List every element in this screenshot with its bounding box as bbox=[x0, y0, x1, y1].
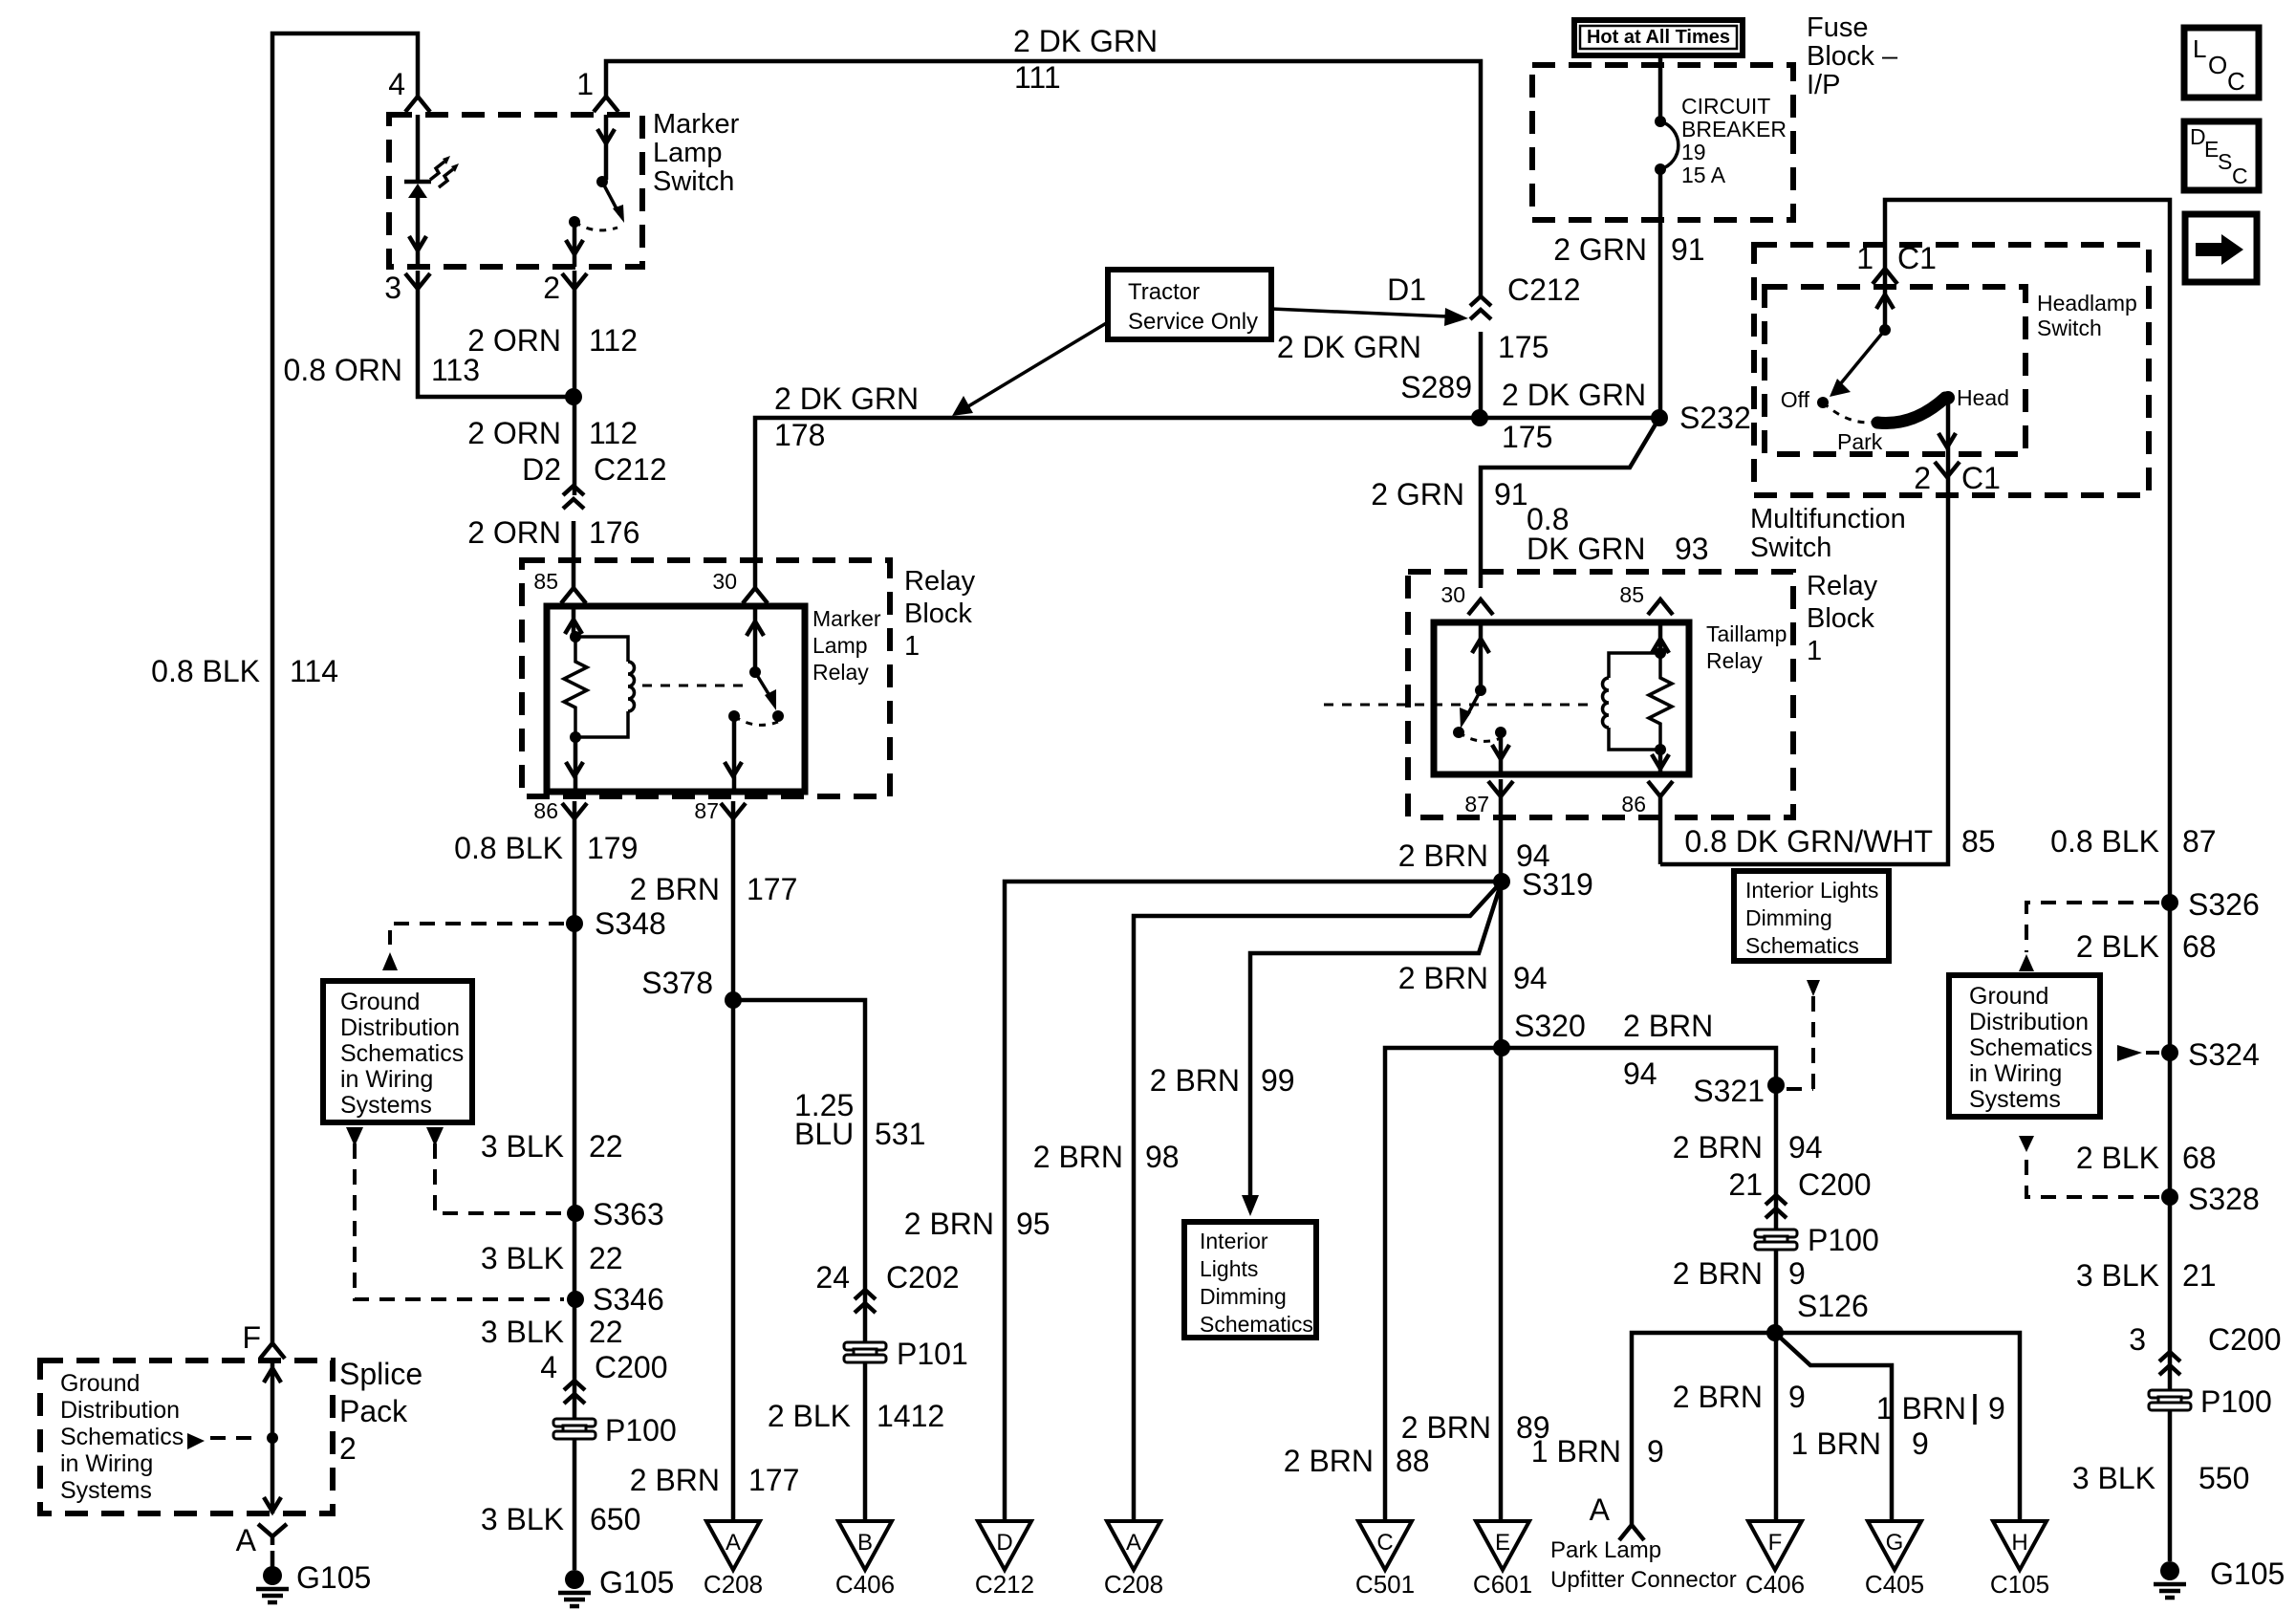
svg-text:E: E bbox=[1495, 1530, 1510, 1556]
svg-text:S363: S363 bbox=[593, 1197, 664, 1231]
svg-text:in Wiring: in Wiring bbox=[1969, 1060, 2062, 1087]
wire 2 BRN 95 to D bbox=[1005, 882, 1502, 1521]
svg-text:O: O bbox=[2208, 51, 2227, 79]
marker lamp relay solid box bbox=[547, 606, 805, 792]
svg-text:G: G bbox=[1886, 1530, 1904, 1556]
svg-text:CIRCUIT: CIRCUIT bbox=[1681, 94, 1770, 119]
svg-text:2 BRN: 2 BRN bbox=[904, 1207, 994, 1241]
svg-text:C208: C208 bbox=[704, 1570, 763, 1599]
wire 2 DK GRN 178 horizontal bbox=[755, 418, 1659, 588]
svg-text:179: 179 bbox=[587, 831, 638, 865]
svg-text:112: 112 bbox=[589, 323, 638, 358]
wire 2 BRN 88 to C bbox=[1385, 1048, 1502, 1521]
wire 2 GRN 91 to relay 30 bbox=[1481, 418, 1659, 588]
svg-text:Distribution: Distribution bbox=[60, 1397, 180, 1424]
svg-text:Lamp: Lamp bbox=[812, 633, 868, 658]
svg-text:3 BLK: 3 BLK bbox=[481, 1315, 564, 1349]
svg-text:111: 111 bbox=[1014, 60, 1061, 95]
svg-text:2 GRN: 2 GRN bbox=[1371, 477, 1464, 512]
svg-text:94: 94 bbox=[1788, 1130, 1823, 1165]
svg-text:S320: S320 bbox=[1514, 1009, 1586, 1043]
svg-text:2 BRN: 2 BRN bbox=[1284, 1444, 1374, 1478]
svg-text:Relay: Relay bbox=[1706, 648, 1763, 673]
svg-text:C200: C200 bbox=[1798, 1167, 1872, 1202]
svg-text:Switch: Switch bbox=[1750, 533, 1831, 563]
svg-text:Relay: Relay bbox=[904, 566, 976, 597]
svg-text:C: C bbox=[2232, 163, 2248, 188]
svg-text:177: 177 bbox=[747, 872, 797, 906]
svg-text:Off: Off bbox=[1781, 387, 1810, 412]
ground G105 (left) bbox=[271, 1551, 275, 1567]
svg-text:L: L bbox=[2193, 34, 2206, 63]
svg-text:2 ORN: 2 ORN bbox=[467, 515, 561, 550]
svg-text:in Wiring: in Wiring bbox=[340, 1066, 433, 1093]
svg-text:Schematics: Schematics bbox=[1969, 1034, 2092, 1061]
svg-text:Relay: Relay bbox=[1807, 571, 1878, 601]
svg-text:C1: C1 bbox=[1961, 461, 2001, 495]
splice S326 bbox=[2161, 894, 2178, 911]
svg-text:1 BRN: 1 BRN bbox=[1531, 1434, 1621, 1469]
svg-text:2 BRN: 2 BRN bbox=[1150, 1063, 1240, 1098]
svg-text:1: 1 bbox=[1856, 241, 1874, 275]
wire head contact down pin2 bbox=[1660, 398, 1948, 864]
svg-text:Distribution: Distribution bbox=[1969, 1009, 2089, 1035]
svg-text:93: 93 bbox=[1675, 532, 1709, 566]
svg-text:A: A bbox=[726, 1530, 741, 1556]
svg-text:2 BRN: 2 BRN bbox=[1623, 1009, 1713, 1043]
splice S324 bbox=[2161, 1044, 2178, 1061]
svg-text:178: 178 bbox=[774, 418, 825, 452]
svg-text:Lights: Lights bbox=[1200, 1256, 1258, 1281]
wire headlamp sw pin1 loop to right bbox=[1885, 200, 2170, 1561]
svg-text:2 BLK: 2 BLK bbox=[2076, 929, 2159, 964]
svg-text:C200: C200 bbox=[595, 1350, 668, 1384]
svg-text:Ground: Ground bbox=[1969, 983, 2048, 1010]
triangle H C105 bbox=[1993, 1521, 2047, 1570]
pin 86 connector bbox=[1648, 781, 1673, 796]
svg-text:19: 19 bbox=[1681, 140, 1706, 164]
arrow to 178 wire bbox=[968, 322, 1108, 406]
svg-text:2 BLK: 2 BLK bbox=[2076, 1141, 2159, 1175]
arrow lead to splice wire bbox=[187, 1433, 205, 1449]
svg-text:Block –: Block – bbox=[1807, 41, 1898, 72]
svg-text:87: 87 bbox=[694, 798, 719, 823]
svg-text:85: 85 bbox=[1619, 582, 1644, 607]
svg-text:G105: G105 bbox=[599, 1565, 674, 1600]
svg-text:Switch: Switch bbox=[2037, 316, 2102, 340]
svg-text:Schematics: Schematics bbox=[60, 1424, 184, 1450]
svg-text:Ground: Ground bbox=[340, 989, 420, 1015]
svg-text:S: S bbox=[2218, 149, 2232, 174]
switch arm (marker lamp switch) bbox=[604, 115, 609, 180]
svg-text:1 BRN: 1 BRN bbox=[1791, 1426, 1881, 1461]
svg-text:86: 86 bbox=[533, 798, 558, 823]
svg-text:0.8 BLK: 0.8 BLK bbox=[151, 654, 260, 688]
svg-text:Systems: Systems bbox=[60, 1477, 152, 1504]
headlamp switch contacts bbox=[1879, 324, 1891, 336]
wire 0.8 BLK 179 bbox=[573, 801, 577, 1570]
svg-text:C406: C406 bbox=[1745, 1570, 1805, 1599]
dashed lead S328 to ground dist box right bbox=[2026, 1154, 2159, 1197]
relay actuation dashed link (taillamp) bbox=[1324, 704, 1592, 707]
splice S348 bbox=[566, 915, 583, 932]
svg-text:Splice: Splice bbox=[339, 1357, 422, 1391]
svg-text:C601: C601 bbox=[1473, 1570, 1532, 1599]
svg-text:Park Lamp: Park Lamp bbox=[1550, 1537, 1661, 1563]
svg-text:S126: S126 bbox=[1797, 1289, 1869, 1323]
Tractor Service Only box bbox=[1108, 270, 1271, 339]
svg-text:I/P: I/P bbox=[1807, 70, 1840, 100]
connector P100 (left) bbox=[553, 1419, 596, 1439]
svg-text:Interior Lights: Interior Lights bbox=[1745, 878, 1878, 903]
svg-text:H: H bbox=[2011, 1530, 2027, 1556]
Multifunction Switch outer dashed box bbox=[1754, 245, 2149, 495]
svg-text:2 BRN: 2 BRN bbox=[1033, 1140, 1123, 1174]
svg-text:85: 85 bbox=[533, 569, 558, 594]
wire 1 BRN 9 to G bbox=[1775, 1333, 1892, 1521]
svg-text:S324: S324 bbox=[2188, 1037, 2260, 1072]
svg-text:C: C bbox=[2227, 67, 2245, 96]
wire 0.8 ORN 113 pin3 to junction bbox=[418, 271, 574, 397]
svg-text:C105: C105 bbox=[1990, 1570, 2049, 1599]
svg-text:Interior: Interior bbox=[1200, 1229, 1268, 1253]
svg-text:S328: S328 bbox=[2188, 1182, 2260, 1216]
svg-text:3 BLK: 3 BLK bbox=[481, 1502, 564, 1536]
svg-text:Hot at All Times: Hot at All Times bbox=[1587, 27, 1730, 48]
wire pin86 to headlamp pin2 bbox=[1658, 795, 1663, 864]
svg-text:2 BRN: 2 BRN bbox=[1673, 1256, 1763, 1291]
svg-text:3: 3 bbox=[2129, 1322, 2146, 1357]
svg-text:Systems: Systems bbox=[340, 1092, 432, 1119]
svg-text:3 BLK: 3 BLK bbox=[481, 1129, 564, 1164]
svg-text:177: 177 bbox=[748, 1463, 799, 1497]
Hot at All Times box bbox=[1574, 20, 1743, 55]
pin 87 connector bbox=[721, 803, 746, 818]
junction S-dot at 112/113 bbox=[565, 388, 582, 405]
triangle D C212 bbox=[978, 1521, 1031, 1570]
connector 1 C1 bbox=[1873, 269, 1897, 284]
svg-text:Headlamp: Headlamp bbox=[2037, 291, 2137, 316]
svg-text:S319: S319 bbox=[1522, 867, 1593, 902]
svg-text:C212: C212 bbox=[975, 1570, 1034, 1599]
Relay Block 1 dashed box (left) bbox=[522, 560, 890, 796]
svg-text:Fuse: Fuse bbox=[1807, 12, 1868, 43]
svg-text:1: 1 bbox=[904, 631, 920, 662]
svg-text:Lamp: Lamp bbox=[653, 138, 723, 168]
pin 30 connector bbox=[743, 588, 768, 603]
arrow lead to S346 bbox=[346, 1127, 363, 1146]
svg-text:175: 175 bbox=[1502, 420, 1552, 454]
node pin 1 connector bbox=[594, 97, 618, 112]
svg-text:88: 88 bbox=[1396, 1444, 1430, 1478]
node pin 3 connector bbox=[405, 273, 430, 289]
Interior Lights Dimming Schematics box (right) bbox=[1734, 871, 1889, 961]
svg-text:BREAKER: BREAKER bbox=[1681, 117, 1787, 142]
svg-text:C208: C208 bbox=[1104, 1570, 1163, 1599]
svg-text:G105: G105 bbox=[296, 1560, 371, 1595]
svg-text:550: 550 bbox=[2199, 1461, 2249, 1495]
svg-text:94: 94 bbox=[1513, 961, 1548, 995]
Ground Distribution box (left) bbox=[323, 981, 472, 1122]
svg-text:C405: C405 bbox=[1865, 1570, 1924, 1599]
relay coil+resistor (marker) bbox=[572, 606, 576, 637]
svg-text:Ground: Ground bbox=[60, 1370, 140, 1397]
svg-text:Service Only: Service Only bbox=[1128, 309, 1258, 335]
wire 1 BRN 9 to H bbox=[1775, 1333, 2020, 1521]
splice S328 bbox=[2161, 1188, 2178, 1206]
svg-text:F: F bbox=[1768, 1530, 1783, 1556]
svg-text:112: 112 bbox=[589, 416, 638, 450]
svg-text:Schematics: Schematics bbox=[1200, 1312, 1313, 1337]
svg-text:94: 94 bbox=[1623, 1056, 1657, 1091]
lamp symbol (marker lamp) bbox=[416, 115, 421, 180]
svg-text:Distribution: Distribution bbox=[340, 1014, 460, 1041]
svg-text:2 ORN: 2 ORN bbox=[467, 323, 561, 358]
svg-text:24: 24 bbox=[815, 1260, 850, 1295]
svg-text:2 BRN: 2 BRN bbox=[1398, 961, 1488, 995]
svg-text:S321: S321 bbox=[1693, 1074, 1765, 1108]
svg-text:C501: C501 bbox=[1355, 1570, 1415, 1599]
dashed lead S326 to ground dist box right bbox=[2026, 903, 2159, 952]
svg-text:3 BLK: 3 BLK bbox=[481, 1241, 564, 1275]
splice S319 bbox=[1493, 873, 1510, 890]
wire through splice pack bbox=[271, 1361, 275, 1513]
svg-text:2: 2 bbox=[543, 271, 560, 305]
pin 85 connector bbox=[561, 588, 586, 603]
svg-text:2 BRN: 2 BRN bbox=[1673, 1380, 1763, 1414]
DESC box bbox=[2184, 121, 2259, 190]
svg-text:4: 4 bbox=[388, 67, 405, 101]
svg-text:85: 85 bbox=[1961, 824, 1996, 859]
Fuse Block dashed box bbox=[1532, 65, 1793, 220]
svg-text:Head: Head bbox=[1957, 385, 2009, 410]
svg-text:Dimming: Dimming bbox=[1745, 905, 1832, 930]
svg-text:22: 22 bbox=[589, 1315, 623, 1349]
pin 86 connector bbox=[562, 803, 587, 818]
svg-text:P101: P101 bbox=[897, 1337, 968, 1371]
svg-text:2 DK GRN: 2 DK GRN bbox=[774, 381, 919, 416]
triangle E C601 bbox=[1476, 1521, 1529, 1570]
svg-text:C212: C212 bbox=[594, 452, 667, 487]
triangle F C406 bbox=[1748, 1521, 1802, 1570]
svg-text:A: A bbox=[1590, 1492, 1611, 1527]
svg-text:531: 531 bbox=[875, 1117, 925, 1151]
node pin 2 connector bbox=[562, 273, 587, 289]
svg-text:22: 22 bbox=[589, 1129, 623, 1164]
svg-text:9: 9 bbox=[1788, 1380, 1806, 1414]
splice S320 bbox=[1493, 1039, 1510, 1056]
svg-text:2 DK GRN: 2 DK GRN bbox=[1502, 378, 1646, 412]
svg-text:68: 68 bbox=[2182, 929, 2217, 964]
svg-text:D: D bbox=[996, 1530, 1012, 1556]
svg-text:9: 9 bbox=[1647, 1434, 1664, 1469]
triangle A2 C208 bbox=[1107, 1521, 1160, 1570]
svg-text:9: 9 bbox=[1788, 1256, 1806, 1291]
svg-text:Systems: Systems bbox=[1969, 1086, 2061, 1113]
svg-text:Block: Block bbox=[1807, 603, 1874, 634]
wire 1.25 BLU 531 bbox=[733, 1000, 865, 1521]
park-head thick contact arc bbox=[1877, 398, 1945, 423]
lamp rays bbox=[430, 162, 453, 187]
triangle B C406 bbox=[838, 1521, 892, 1570]
circuit breaker bbox=[1658, 54, 1663, 121]
svg-text:P100: P100 bbox=[605, 1413, 677, 1448]
svg-text:9: 9 bbox=[1912, 1426, 1929, 1461]
svg-text:68: 68 bbox=[2182, 1141, 2217, 1175]
Ground Distribution box (right) bbox=[1949, 975, 2100, 1117]
dashed lead S348 to ground dist box bbox=[390, 924, 564, 945]
taillamp relay solid box bbox=[1434, 622, 1689, 774]
svg-text:1: 1 bbox=[1807, 636, 1822, 666]
svg-text:S289: S289 bbox=[1400, 370, 1472, 404]
wire 2 BRN 94 S320 to S321 bbox=[1502, 1048, 1776, 1521]
svg-text:91: 91 bbox=[1494, 477, 1528, 512]
svg-text:B: B bbox=[857, 1530, 873, 1556]
svg-text:Schematics: Schematics bbox=[1745, 933, 1859, 958]
svg-text:Dimming: Dimming bbox=[1200, 1284, 1287, 1309]
svg-text:2 DK GRN: 2 DK GRN bbox=[1277, 330, 1421, 364]
svg-text:Schematics: Schematics bbox=[340, 1040, 464, 1067]
next-page arrow box bbox=[2185, 214, 2257, 282]
wire 2 DK GRN 111 top run bbox=[606, 61, 1481, 296]
svg-text:D1: D1 bbox=[1387, 272, 1426, 307]
connector P101 bbox=[844, 1342, 886, 1362]
svg-text:2 BRN: 2 BRN bbox=[1398, 838, 1488, 873]
svg-text:P100: P100 bbox=[1808, 1223, 1879, 1257]
connector A below splice pack bbox=[258, 1524, 287, 1545]
wire 2 ORN 112 pin2 down bbox=[573, 271, 577, 495]
svg-text:Marker: Marker bbox=[812, 606, 881, 631]
svg-text:Block: Block bbox=[904, 599, 972, 629]
svg-text:C: C bbox=[1376, 1530, 1393, 1556]
svg-text:2 BLK: 2 BLK bbox=[768, 1399, 851, 1433]
svg-text:Switch: Switch bbox=[653, 166, 734, 197]
svg-text:15 A: 15 A bbox=[1681, 163, 1726, 187]
svg-text:2 BRN: 2 BRN bbox=[630, 1463, 720, 1497]
wire 0.8 BLK 114 left vertical bbox=[272, 33, 418, 1342]
svg-text:C202: C202 bbox=[886, 1260, 960, 1295]
svg-text:99: 99 bbox=[1261, 1063, 1295, 1098]
svg-text:1412: 1412 bbox=[877, 1399, 944, 1433]
triangle A C208 bbox=[706, 1521, 760, 1570]
connector P100 (right) bbox=[2149, 1390, 2191, 1410]
svg-text:95: 95 bbox=[1016, 1207, 1051, 1241]
svg-text:2 DK GRN: 2 DK GRN bbox=[1013, 24, 1158, 58]
svg-text:C406: C406 bbox=[835, 1570, 895, 1599]
wire 2 BRN 94 relay87 down bbox=[1499, 779, 1504, 1521]
svg-text:3 BLK: 3 BLK bbox=[2076, 1258, 2159, 1293]
svg-text:G105: G105 bbox=[2210, 1557, 2285, 1591]
svg-text:30: 30 bbox=[712, 569, 737, 594]
svg-text:176: 176 bbox=[589, 515, 639, 550]
wire 1 BRN 9 to park lamp upfitter bbox=[1632, 1333, 1775, 1524]
svg-text:3: 3 bbox=[384, 271, 401, 305]
svg-text:Pack: Pack bbox=[339, 1394, 408, 1428]
svg-text:Taillamp: Taillamp bbox=[1706, 621, 1787, 646]
splice S321 bbox=[1767, 1077, 1785, 1094]
svg-text:BLU: BLU bbox=[794, 1117, 854, 1151]
svg-text:C200: C200 bbox=[2208, 1322, 2282, 1357]
svg-text:DK GRN: DK GRN bbox=[1527, 532, 1645, 566]
svg-text:0.8 BLK: 0.8 BLK bbox=[2050, 824, 2159, 859]
svg-text:0.8 DK GRN/WHT: 0.8 DK GRN/WHT bbox=[1684, 824, 1933, 859]
arrow lead to S324 bbox=[2117, 1045, 2142, 1061]
svg-text:Multifunction: Multifunction bbox=[1750, 504, 1906, 534]
triangle C C501 bbox=[1358, 1521, 1412, 1570]
svg-text:F: F bbox=[242, 1320, 261, 1355]
splice S363 bbox=[567, 1205, 584, 1222]
svg-text:114: 114 bbox=[290, 654, 338, 688]
Headlamp Switch inner dashed box bbox=[1765, 287, 2025, 454]
svg-text:9: 9 bbox=[1988, 1391, 2005, 1426]
svg-text:A: A bbox=[236, 1523, 257, 1557]
svg-text:A: A bbox=[1126, 1530, 1141, 1556]
LOC box bbox=[2184, 28, 2259, 98]
svg-text:4: 4 bbox=[540, 1350, 557, 1384]
wire 2 BRN 98 to A bbox=[1134, 882, 1502, 1521]
connector P100 (center) bbox=[1755, 1230, 1797, 1250]
splice S289 bbox=[1471, 409, 1488, 426]
svg-text:21: 21 bbox=[2182, 1258, 2217, 1293]
svg-text:2 BRN: 2 BRN bbox=[630, 872, 720, 906]
arrow to D1 connector bbox=[1271, 309, 1447, 316]
svg-text:175: 175 bbox=[1498, 330, 1549, 364]
svg-text:S232: S232 bbox=[1679, 401, 1751, 435]
svg-text:S348: S348 bbox=[595, 906, 666, 941]
svg-text:21: 21 bbox=[1728, 1167, 1763, 1202]
ground G105 (center-left) bbox=[558, 1570, 591, 1606]
svg-text:C1: C1 bbox=[1897, 241, 1937, 275]
node pin 4 connector bbox=[405, 97, 430, 112]
wire 2 DK GRN 175 vertical bbox=[1479, 332, 1484, 418]
pin 85 connector bbox=[1648, 599, 1673, 615]
arrow lead from box to S321 bbox=[1807, 980, 1820, 996]
triangle G C405 bbox=[1868, 1521, 1921, 1570]
svg-text:2: 2 bbox=[1914, 461, 1931, 495]
svg-text:0.8 BLK: 0.8 BLK bbox=[454, 831, 563, 865]
splice S346 bbox=[567, 1291, 584, 1308]
arrow lead to S363 bbox=[426, 1127, 444, 1146]
svg-text:C212: C212 bbox=[1507, 272, 1581, 307]
svg-text:D2: D2 bbox=[522, 452, 561, 487]
svg-text:Relay: Relay bbox=[812, 660, 869, 685]
wire 2 BRN 99 to interior lights bbox=[1250, 882, 1502, 1195]
svg-text:Marker: Marker bbox=[653, 109, 740, 140]
Interior Lights Dimming Schematics box (center) bbox=[1184, 1222, 1316, 1338]
splice S378 bbox=[725, 991, 742, 1009]
svg-text:2 ORN: 2 ORN bbox=[467, 416, 561, 450]
pin 30 connector bbox=[1468, 599, 1493, 615]
svg-text:in Wiring: in Wiring bbox=[60, 1450, 153, 1477]
relay coil+resistor (taillamp) bbox=[1658, 622, 1663, 653]
svg-text:2 GRN: 2 GRN bbox=[1553, 232, 1647, 267]
pin 87 connector bbox=[1488, 781, 1513, 796]
svg-text:86: 86 bbox=[1621, 792, 1646, 816]
svg-text:22: 22 bbox=[589, 1241, 623, 1275]
splice S232 bbox=[1651, 409, 1668, 426]
svg-text:87: 87 bbox=[1464, 792, 1489, 816]
Splice Pack 2 dashed box bbox=[40, 1361, 333, 1513]
svg-text:1 BRN: 1 BRN bbox=[1876, 1391, 1966, 1426]
svg-text:1: 1 bbox=[576, 67, 594, 101]
svg-text:S378: S378 bbox=[641, 966, 713, 1000]
svg-text:98: 98 bbox=[1145, 1140, 1180, 1174]
svg-text:2 BRN: 2 BRN bbox=[1673, 1130, 1763, 1165]
svg-text:Tractor: Tractor bbox=[1128, 279, 1200, 305]
wire 2 BRN 177 bbox=[731, 801, 736, 1521]
svg-text:Park: Park bbox=[1837, 429, 1883, 454]
relay switch (taillamp) bbox=[1479, 622, 1484, 690]
